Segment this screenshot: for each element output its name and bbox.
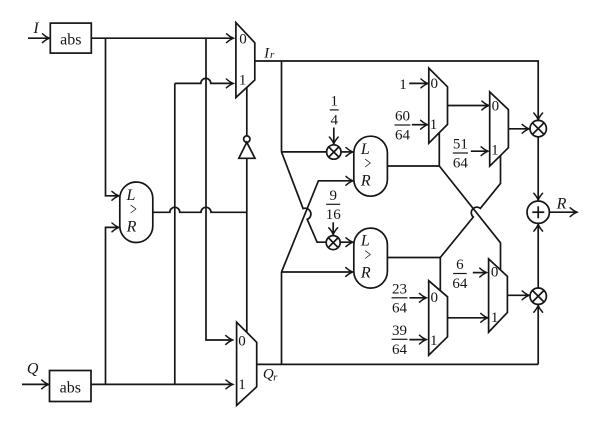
svg-text:23: 23 (392, 282, 407, 298)
svg-text:39: 39 (392, 323, 407, 339)
multiplier X1 (327, 145, 341, 159)
wire Ir to multiplier X1 (282, 151, 327, 153)
wire 1/4 into X1 (333, 128, 335, 144)
comparator U3 L>R (354, 136, 388, 196)
wire Qr diagonal to comparator U3 R input (282, 181, 353, 272)
svg-text:>: > (364, 247, 371, 266)
svg-text:Q: Q (27, 361, 39, 378)
svg-text:I: I (263, 45, 270, 61)
wire Q input arrow (22, 383, 49, 385)
wire |Q| to mux M1 input 1 with hop (175, 78, 233, 384)
wire I input arrow (28, 37, 49, 39)
svg-text:64: 64 (453, 156, 469, 172)
constant label 1 (399, 77, 407, 93)
fraction label 60/64 (395, 109, 411, 144)
wire R output arrow (550, 211, 578, 213)
wire U4 select to mux M5 (439, 258, 441, 291)
wire X1 to comparator U3 L input (341, 151, 353, 153)
svg-text:1: 1 (238, 377, 246, 393)
abs block U1 (50, 23, 91, 53)
wire |I| branch to comparator U2 L input (106, 38, 119, 196)
svg-text:R: R (360, 172, 371, 189)
comparator U2 L>R (120, 182, 153, 243)
wire 60/64 to mux M3 input 1 (412, 124, 428, 126)
svg-text:1: 1 (430, 117, 438, 133)
wire U4 output (387, 257, 440, 259)
svg-text:16: 16 (326, 207, 342, 223)
svg-text:0: 0 (491, 265, 499, 281)
svg-text:60: 60 (395, 109, 410, 125)
svg-text:r: r (270, 49, 275, 61)
wire U4 select diagonal to mux M4 with hop (440, 156, 500, 258)
mux M4 (490, 92, 509, 166)
svg-text:R: R (360, 264, 371, 281)
output label Qr (263, 366, 278, 383)
wire U2 output with hops (153, 207, 247, 212)
output label R (556, 196, 567, 213)
multiplier X2 (326, 236, 340, 250)
wire 51/64 to mux M4 input 1 (471, 150, 488, 152)
wire M3 to mux M4 input 0 (448, 105, 489, 107)
wire X4 to adder A1 (537, 224, 539, 288)
wire 23/64 to mux M5 input 0 (409, 297, 426, 299)
wire 39/64 to mux M5 input 1 (409, 339, 426, 341)
svg-text:0: 0 (239, 32, 247, 48)
svg-text:64: 64 (392, 342, 408, 358)
input label Q (27, 361, 39, 378)
wire Ir diagonal to multiplier X2 with hop (282, 152, 327, 242)
mux M3 (429, 68, 448, 143)
svg-text:0: 0 (430, 76, 438, 92)
wire M4 to multiplier X3 (508, 128, 529, 130)
wire Qr rise (281, 272, 283, 364)
wire X3 to adder A1 (537, 137, 539, 200)
svg-text:1: 1 (239, 73, 247, 89)
mux M2 (237, 322, 257, 405)
svg-text:64: 64 (392, 300, 408, 316)
svg-text:6: 6 (456, 257, 464, 273)
svg-text:abs: abs (60, 379, 81, 396)
svg-text:I: I (32, 20, 39, 37)
svg-text:r: r (273, 372, 278, 384)
wire select to mux M2 (246, 212, 248, 332)
svg-text:R: R (126, 219, 137, 236)
svg-text:1: 1 (491, 143, 499, 159)
abs block U5 (50, 371, 92, 402)
svg-text:9: 9 (329, 188, 337, 204)
fraction label 51/64 (453, 137, 469, 172)
svg-text:0: 0 (238, 334, 246, 350)
wire const 1 to mux M3 input 0 (409, 82, 428, 84)
wire Qr to multiplier X4 (537, 305, 539, 364)
mux M1 (236, 23, 255, 98)
mux M5 (429, 281, 448, 356)
svg-text:1: 1 (330, 94, 338, 110)
wire |I| to mux M1 input 0 (91, 37, 233, 39)
inverter G1 (239, 87, 255, 212)
wire Ir drop to scalers (281, 61, 283, 152)
wire |I| branch to mux M2 input 0 (206, 38, 233, 340)
output label Ir (263, 45, 275, 61)
multiplier X4 (530, 288, 546, 304)
fraction label 6/64 (452, 257, 468, 292)
wire Qr to comparator U4 R input (282, 271, 353, 273)
wire |Q| branch to comparator U2 R input (106, 227, 119, 384)
adder A1 (527, 201, 549, 223)
svg-text:64: 64 (452, 276, 468, 292)
wire M5 to mux M6 input 1 (448, 317, 488, 319)
svg-text:64: 64 (395, 128, 411, 144)
svg-text:0: 0 (492, 99, 500, 115)
wire U3 select to mux M3 (438, 133, 440, 166)
fraction label 9/16 (326, 188, 342, 223)
svg-text:abs: abs (60, 31, 81, 48)
svg-text:1: 1 (399, 77, 407, 93)
svg-text:0: 0 (430, 290, 438, 306)
svg-text:R: R (556, 196, 567, 213)
svg-text:1: 1 (491, 310, 499, 326)
fraction label 23/64 (392, 282, 408, 317)
multiplier X3 (530, 120, 546, 136)
svg-text:>: > (130, 201, 137, 220)
svg-text:4: 4 (330, 112, 338, 128)
svg-text:1: 1 (430, 333, 438, 349)
wire 6/64 to mux M6 input 0 (473, 272, 487, 274)
wire Qr (257, 363, 539, 365)
svg-text:>: > (364, 155, 371, 174)
fraction label 39/64 (392, 323, 408, 358)
comparator U4 L>R (354, 228, 388, 288)
input label I (32, 20, 39, 37)
svg-text:51: 51 (453, 137, 468, 153)
wire X2 to comparator U4 L input (340, 241, 353, 243)
wire 9/16 into X2 (332, 222, 334, 234)
wire U3 output (387, 165, 439, 167)
wire U3 select diagonal to mux M6 (439, 166, 500, 270)
wire |Q| to mux M2 input 1 (91, 383, 233, 385)
wire M6 to multiplier X4 (507, 294, 529, 296)
fraction label 1/4 (330, 94, 339, 129)
wire Ir (255, 61, 538, 120)
mux M6 (489, 259, 508, 332)
